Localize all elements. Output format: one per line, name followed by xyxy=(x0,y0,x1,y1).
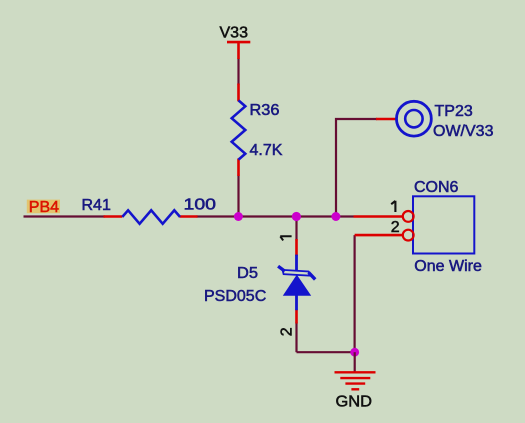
power port V33 xyxy=(220,25,251,60)
svg-text:PB4: PB4 xyxy=(29,199,59,216)
svg-text:4.7K: 4.7K xyxy=(250,142,283,159)
pin number 1 of D5 xyxy=(280,236,291,240)
svg-text:GND: GND xyxy=(336,394,373,411)
pin 1 of CON6 xyxy=(354,201,414,222)
svg-text:D5: D5 xyxy=(237,265,258,282)
connector CON6 xyxy=(354,179,482,275)
svg-text:R41: R41 xyxy=(82,197,111,214)
svg-text:CON6: CON6 xyxy=(414,179,459,196)
resistor R36 xyxy=(232,84,283,177)
test point TP23 xyxy=(376,101,494,140)
svg-text:V33: V33 xyxy=(220,25,249,42)
net label PB4 xyxy=(27,199,60,216)
svg-text:100: 100 xyxy=(184,197,217,214)
svg-text:One Wire: One Wire xyxy=(414,258,482,275)
junction node GND xyxy=(350,348,359,357)
junction node R36/main xyxy=(234,212,243,221)
wire main horizontal left of R41 xyxy=(24,215,106,217)
wire main horizontal right of R41 xyxy=(197,215,354,217)
junction node D5/main xyxy=(292,212,301,221)
svg-text:2: 2 xyxy=(391,219,400,236)
svg-text:R36: R36 xyxy=(250,102,280,119)
ground GND xyxy=(335,352,376,410)
svg-text:PSD05C: PSD05C xyxy=(204,288,266,305)
wire bottom horizontal to GND xyxy=(297,351,355,353)
wire D5 pin 2 to bottom net xyxy=(295,322,297,352)
svg-text:OW/V33: OW/V33 xyxy=(433,123,494,140)
resistor R41 xyxy=(82,197,217,224)
wire CON6 pin2 branch xyxy=(354,235,356,352)
wire TP23 branch xyxy=(336,119,377,217)
wire R36 bottom pin to main net xyxy=(237,175,239,217)
diode D5 PSD05C xyxy=(204,236,315,336)
junction node TP23/main xyxy=(331,212,340,221)
wire main net to D5 pin 1 xyxy=(295,217,297,241)
pin 2 of CON6 xyxy=(355,219,414,241)
svg-text:TP23: TP23 xyxy=(435,103,473,120)
svg-text:2: 2 xyxy=(278,327,295,336)
wire V33 to R36 top pin xyxy=(237,58,239,85)
